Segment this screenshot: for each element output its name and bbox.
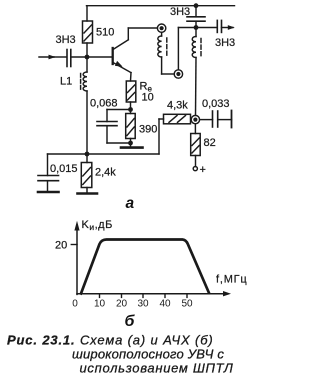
svg-text:2,4k: 2,4k xyxy=(95,167,116,179)
svg-text:Kи,дБ: Kи,дБ xyxy=(82,219,113,232)
wire circle2 up to node B line xyxy=(178,28,196,70)
transformer T1 winding 1 xyxy=(158,32,174,74)
terminal bar xyxy=(231,111,233,128)
svg-text:10: 10 xyxy=(94,299,106,310)
supply terminal + xyxy=(193,167,197,171)
node B3 xyxy=(128,141,133,146)
x axis labels xyxy=(72,299,193,310)
capacitor C2 3H3 top xyxy=(187,6,205,28)
capacitor C3 3H3 output xyxy=(217,20,221,32)
svg-text:20: 20 xyxy=(55,240,67,252)
svg-text:3Н3: 3Н3 xyxy=(170,6,190,18)
svg-text:10: 10 xyxy=(142,92,154,104)
node B2 xyxy=(128,107,133,112)
y tick 20 xyxy=(71,244,77,246)
wire node C to C6 xyxy=(200,119,213,121)
capacitor C1 3H3 input xyxy=(67,50,71,67)
wire R3 to node B3 xyxy=(130,139,132,147)
output arrow xyxy=(222,25,235,30)
svg-text:0: 0 xyxy=(72,299,78,310)
capacitor C6 0,033 xyxy=(213,111,218,127)
svg-text:широкополосного УВЧ с: широкополосного УВЧ с xyxy=(72,347,224,362)
svg-text:использованием ШПТЛ: использованием ШПТЛ xyxy=(80,361,234,376)
transformer T1 terminal circle 2 xyxy=(174,70,182,78)
node A xyxy=(85,55,90,60)
resistor R3 390 xyxy=(126,114,136,139)
input arrow xyxy=(39,55,67,60)
wire R1 to node A xyxy=(86,43,88,57)
svg-text:0,068: 0,068 xyxy=(90,98,118,110)
svg-text:40: 40 xyxy=(159,299,171,310)
svg-text:4,3k: 4,3k xyxy=(167,100,188,112)
wire top rail xyxy=(87,5,235,7)
svg-text:20: 20 xyxy=(116,299,128,310)
wire C6 to terminal bar xyxy=(218,119,232,121)
capacitor C5 0,015 xyxy=(38,154,59,192)
chart x-axis xyxy=(77,293,228,295)
node B xyxy=(194,25,199,30)
chart y-axis xyxy=(76,225,78,294)
resistor R2 Re 10 xyxy=(126,81,136,102)
node rail-left column xyxy=(85,152,90,157)
svg-text:82: 82 xyxy=(204,137,216,149)
wire rail down to R1 xyxy=(86,6,88,21)
svg-text:L1: L1 xyxy=(60,76,72,88)
wire node A to base xyxy=(87,56,112,58)
svg-text:б: б xyxy=(125,313,136,330)
transformer terminal circle 3 / node C xyxy=(191,115,199,123)
svg-text:3Н3: 3Н3 xyxy=(56,34,76,46)
svg-text:f,МГц: f,МГц xyxy=(216,274,248,286)
svg-text:3Н3: 3Н3 xyxy=(215,37,235,49)
wire C4 down to node B3 xyxy=(107,126,131,143)
wire bottom rail xyxy=(48,153,160,155)
wire node B2 to C4 xyxy=(107,110,131,122)
ground bar under 390 xyxy=(121,146,143,149)
svg-text:30: 30 xyxy=(137,299,149,310)
wire collector to T1 xyxy=(128,27,157,29)
frequency response curve xyxy=(81,240,209,294)
capacitor C4 0,068 xyxy=(97,122,117,126)
transistor Q1 xyxy=(113,28,131,81)
svg-text:Рис. 23.1. Схема (а) и АЧХ (б): Рис. 23.1. Схема (а) и АЧХ (б) xyxy=(7,333,214,348)
wire node B to output cap xyxy=(196,27,217,29)
svg-text:+: + xyxy=(200,164,206,176)
svg-text:0,015: 0,015 xyxy=(50,163,78,175)
ground bar under 2,4k xyxy=(78,192,98,195)
resistor R1 510 xyxy=(83,21,93,43)
node on rail xyxy=(194,3,199,8)
transformer T1 terminal circle 1 xyxy=(157,24,165,32)
svg-text:а: а xyxy=(126,195,135,212)
x ticks xyxy=(100,294,188,298)
wire C1 to node A xyxy=(71,56,87,58)
inductor L1 xyxy=(81,57,87,154)
transformer T1 winding 2 xyxy=(192,28,201,116)
svg-text:510: 510 xyxy=(96,27,114,39)
ground bar under 0,015 xyxy=(38,191,59,194)
wire rail up to R5 xyxy=(159,119,164,154)
svg-text:0,033: 0,033 xyxy=(202,98,230,110)
resistor R4 2,4k xyxy=(81,154,92,193)
svg-text:50: 50 xyxy=(181,299,193,310)
resistor R5 4,3k xyxy=(164,114,191,124)
wire Re to node B2 xyxy=(130,102,132,114)
resistor R6 82 xyxy=(191,124,201,167)
svg-text:390: 390 xyxy=(139,124,157,136)
